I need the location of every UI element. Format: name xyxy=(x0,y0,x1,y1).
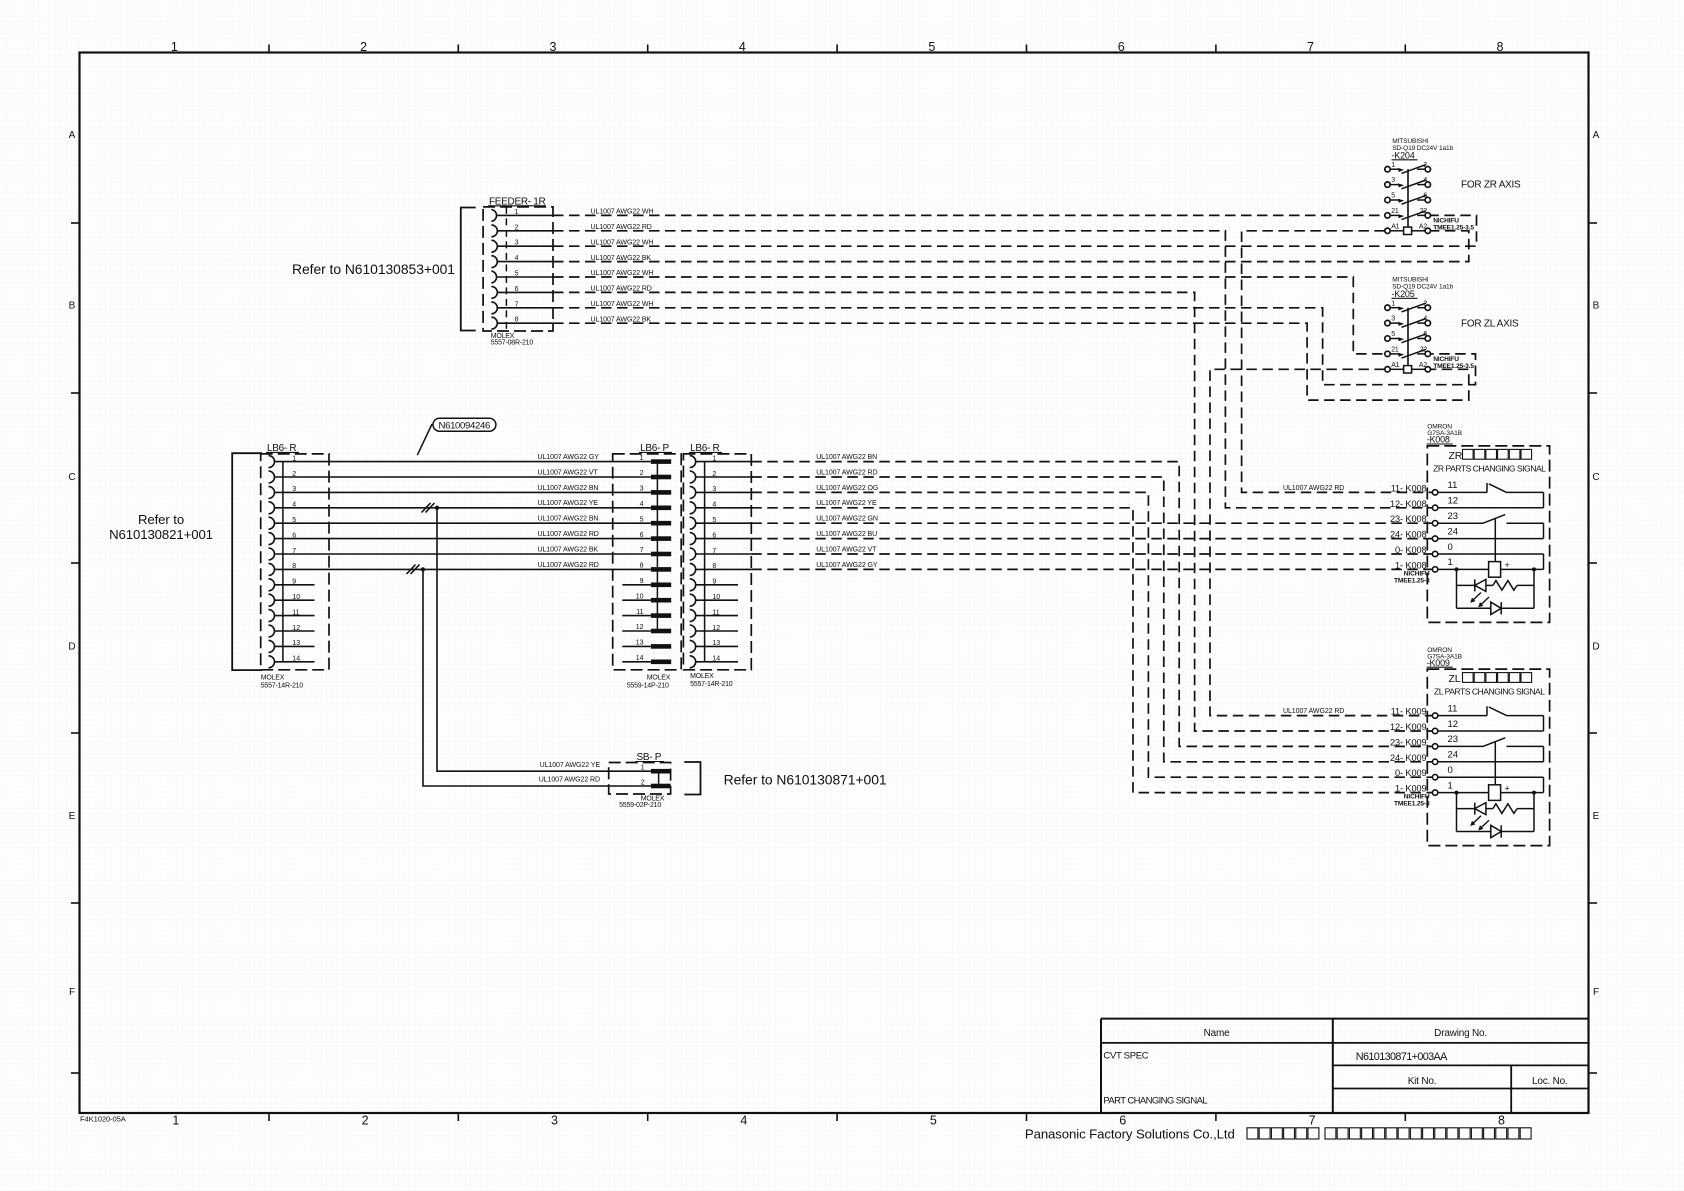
wire FEEDER.8 to K205.A2 (BK) xyxy=(553,323,1469,400)
relay K008 rows 0,1 xyxy=(1438,553,1544,555)
svg-text:UL1007 AWG22 RD: UL1007 AWG22 RD xyxy=(816,469,877,476)
svg-text:1: 1 xyxy=(640,455,644,462)
svg-text:N610130821+001: N610130821+001 xyxy=(109,527,213,542)
svg-text:4: 4 xyxy=(515,255,519,262)
svg-text:4: 4 xyxy=(1423,177,1427,184)
svg-text:Kit No.: Kit No. xyxy=(1408,1076,1437,1087)
svg-text:5: 5 xyxy=(930,1114,937,1128)
relay K205 contact row 5-6 xyxy=(1385,336,1390,341)
svg-text:14: 14 xyxy=(712,656,720,663)
svg-text:Refer to: Refer to xyxy=(138,512,184,527)
wire FEEDER.7 to K205.22 (WH) xyxy=(553,308,1476,385)
svg-text:3: 3 xyxy=(515,240,519,247)
border frame xyxy=(80,53,1589,1114)
svg-text:UL1007 AWG22 BK: UL1007 AWG22 BK xyxy=(538,546,599,553)
svg-text:13: 13 xyxy=(712,640,720,647)
relay K008 contact 11-12 xyxy=(1438,491,1487,493)
svg-text:5: 5 xyxy=(292,517,296,524)
svg-text:A1: A1 xyxy=(1391,362,1399,369)
svg-text:1: 1 xyxy=(1448,780,1453,791)
svg-text:D: D xyxy=(68,642,75,653)
svg-text:8: 8 xyxy=(515,317,519,324)
svg-text:6: 6 xyxy=(1119,1114,1126,1128)
svg-text:Name: Name xyxy=(1204,1028,1231,1039)
svg-text:ZR: ZR xyxy=(1449,450,1463,462)
svg-text:B: B xyxy=(1593,301,1600,312)
junction dot row4 xyxy=(435,506,439,510)
svg-text:5: 5 xyxy=(928,40,935,54)
svg-text:UL1007 AWG22 YE: UL1007 AWG22 YE xyxy=(540,762,601,769)
svg-text:8: 8 xyxy=(712,563,716,570)
svg-text:6: 6 xyxy=(640,532,644,539)
relay K009 pin 0 xyxy=(1432,775,1437,780)
relay K008 contact 23-24 xyxy=(1438,522,1483,524)
relay K205 contact row 21-22 xyxy=(1385,351,1390,356)
title block xyxy=(1101,1018,1589,1020)
svg-text:8: 8 xyxy=(292,563,296,570)
relay K009 pin 12 xyxy=(1432,728,1437,733)
svg-text:UL1007 AWG22 YE: UL1007 AWG22 YE xyxy=(816,500,877,507)
svg-text:A2: A2 xyxy=(1419,223,1427,230)
svg-text:F4K1020-05A: F4K1020-05A xyxy=(80,1115,127,1124)
svg-text:UL1007 AWG22 BN: UL1007 AWG22 BN xyxy=(816,454,877,461)
relay K204 actuator line xyxy=(1407,169,1409,227)
svg-text:4: 4 xyxy=(712,502,716,509)
svg-text:C: C xyxy=(1592,472,1599,483)
svg-text:ZL: ZL xyxy=(1449,673,1461,685)
svg-text:UL1007 AWG22 RD: UL1007 AWG22 RD xyxy=(538,531,599,538)
relay K009 coil link xyxy=(1494,741,1496,785)
svg-text:2: 2 xyxy=(292,471,296,478)
svg-text:UL1007 AWG22 BN: UL1007 AWG22 BN xyxy=(538,485,599,492)
svg-text:TMEE1.25-3.5: TMEE1.25-3.5 xyxy=(1433,363,1474,370)
svg-text:MOLEX: MOLEX xyxy=(261,674,285,681)
relay K008 pin 12 xyxy=(1432,505,1437,510)
svg-text:12: 12 xyxy=(712,625,720,632)
svg-text:21: 21 xyxy=(1391,347,1399,354)
svg-text:Refer to N610130871+001: Refer to N610130871+001 xyxy=(724,772,887,788)
relay K008 pin 24 xyxy=(1432,536,1437,541)
svg-text:-K008: -K008 xyxy=(1427,435,1450,445)
svg-text:24: 24 xyxy=(1448,526,1459,537)
relay K009 contact 23-24 xyxy=(1438,745,1483,747)
svg-text:-K009: -K009 xyxy=(1427,658,1450,668)
wire LB6R.6 to K008.24 (BU) xyxy=(751,538,1432,540)
svg-text:8: 8 xyxy=(1498,1114,1505,1128)
svg-text:1: 1 xyxy=(712,455,716,462)
svg-text:4: 4 xyxy=(740,1114,747,1128)
svg-text:14: 14 xyxy=(636,655,644,662)
relay K009 diode xyxy=(1457,831,1491,833)
svg-text:NICHIFU: NICHIFU xyxy=(1433,218,1459,225)
svg-text:1: 1 xyxy=(172,1114,179,1128)
svg-text:4: 4 xyxy=(739,40,746,54)
wire LB6R.4 to K009.1 (YE) xyxy=(751,508,1432,793)
relay K204 contact row 1-2 xyxy=(1385,167,1390,172)
wire FEEDER.2 to K008.12 (RD) xyxy=(553,231,1432,508)
svg-text:3: 3 xyxy=(551,1114,558,1128)
relay K009 coil xyxy=(1489,785,1501,801)
svg-text:7: 7 xyxy=(712,548,716,555)
svg-text:7: 7 xyxy=(515,301,519,308)
svg-text:UL1007 AWG22 RD: UL1007 AWG22 RD xyxy=(539,777,600,784)
relay K009 pin 1 xyxy=(1432,790,1437,795)
svg-text:1: 1 xyxy=(1391,300,1395,307)
svg-text:2: 2 xyxy=(1423,300,1427,307)
svg-text:UL1007 AWG22 GY: UL1007 AWG22 GY xyxy=(538,454,600,461)
svg-text:6: 6 xyxy=(1423,193,1427,200)
svg-text:C: C xyxy=(68,472,75,483)
svg-text:MOLEX: MOLEX xyxy=(690,673,714,680)
svg-text:Panasonic Factory Solutions Co: Panasonic Factory Solutions Co.,Ltd xyxy=(1025,1127,1235,1142)
svg-text:0- K008: 0- K008 xyxy=(1395,545,1426,555)
wire LB6R.3 to K009.0 (OG) xyxy=(751,492,1432,777)
svg-text:9: 9 xyxy=(292,579,296,586)
svg-text:23- K009: 23- K009 xyxy=(1390,737,1427,747)
relay K009 box xyxy=(1427,669,1549,846)
svg-text:11: 11 xyxy=(712,609,719,616)
svg-text:5: 5 xyxy=(640,516,644,523)
svg-text:7: 7 xyxy=(1309,1114,1316,1128)
relay K009 indicator branches xyxy=(1455,791,1459,795)
wire LB6R.5 to K008.23 (GN) xyxy=(751,522,1432,524)
svg-text:3: 3 xyxy=(550,40,557,54)
svg-text:7: 7 xyxy=(1307,40,1314,54)
svg-text:4: 4 xyxy=(292,502,296,509)
svg-text:11: 11 xyxy=(1448,480,1458,491)
relay K008 pin 11 xyxy=(1432,490,1437,495)
svg-text:10: 10 xyxy=(292,594,300,601)
svg-text:ZR PARTS CHANGING SIGNAL: ZR PARTS CHANGING SIGNAL xyxy=(1433,463,1546,473)
relay K009 pin 24 xyxy=(1432,759,1437,764)
svg-text:NICHIFU: NICHIFU xyxy=(1433,356,1459,363)
wire FEEDER.4 to K204.A2 (BK) xyxy=(553,231,1469,262)
connector LB6-P xyxy=(613,454,682,670)
svg-text:NICHIFU: NICHIFU xyxy=(1404,571,1430,578)
connector LB6-R left bracket xyxy=(232,453,262,670)
svg-text:1: 1 xyxy=(1391,162,1395,169)
relay K009 pin 23 xyxy=(1432,744,1437,749)
FEEDER-1R pins 1-8 xyxy=(491,210,496,222)
balloon leader xyxy=(417,424,432,455)
svg-text:N610130871+003AA: N610130871+003AA xyxy=(1356,1051,1448,1063)
svg-text:11: 11 xyxy=(292,609,299,616)
svg-text:13: 13 xyxy=(636,640,644,647)
svg-text:21: 21 xyxy=(1391,208,1399,215)
svg-text:-K204: -K204 xyxy=(1392,151,1415,161)
svg-text:11: 11 xyxy=(1448,703,1458,714)
svg-text:5557-14R-210: 5557-14R-210 xyxy=(261,682,304,689)
relay K008 pin 1 xyxy=(1432,567,1437,572)
svg-text:23- K008: 23- K008 xyxy=(1390,514,1427,524)
wire LB6 row8 to SB-P pin2 xyxy=(423,569,651,786)
svg-text:12: 12 xyxy=(1448,719,1459,730)
svg-text:2: 2 xyxy=(515,224,519,231)
relay K008 coil xyxy=(1489,562,1501,578)
svg-text:1: 1 xyxy=(292,455,296,462)
relay K009 LED arrows xyxy=(1472,816,1482,825)
svg-text:6: 6 xyxy=(1118,40,1125,54)
wire LB6R.1 to K009.23 (BN) xyxy=(751,462,1432,747)
svg-text:9: 9 xyxy=(640,578,644,585)
wire FEEDER.3 to K204.22 (WH) xyxy=(553,215,1477,246)
svg-text:0: 0 xyxy=(1448,542,1453,553)
svg-text:FOR ZR AXIS: FOR ZR AXIS xyxy=(1461,180,1521,191)
svg-text:FOR ZL AXIS: FOR ZL AXIS xyxy=(1461,319,1519,330)
svg-text:2: 2 xyxy=(1423,162,1427,169)
svg-text:2: 2 xyxy=(362,1114,369,1128)
relay K008 box xyxy=(1427,446,1549,623)
svg-text:6: 6 xyxy=(515,286,519,293)
svg-text:7: 7 xyxy=(292,548,296,555)
wire LB6R.2 to K009.24 (RD) xyxy=(751,477,1432,762)
svg-text:TMEE1.25-3.5: TMEE1.25-3.5 xyxy=(1433,225,1474,232)
connector SB-P xyxy=(609,763,671,795)
svg-text:4: 4 xyxy=(1423,316,1427,323)
svg-text:TMEE1.25-3: TMEE1.25-3 xyxy=(1394,801,1430,808)
LB6-R left pins 1-14 and wires xyxy=(269,456,275,468)
svg-text:12: 12 xyxy=(292,625,300,632)
relay K008 coil link xyxy=(1494,518,1496,562)
relay K204 contact row 21-22 xyxy=(1385,213,1390,218)
relay K008 indicator branches xyxy=(1455,567,1459,571)
svg-text:NICHIFU: NICHIFU xyxy=(1404,794,1430,801)
svg-text:2: 2 xyxy=(640,470,644,477)
svg-text:13: 13 xyxy=(292,640,300,647)
svg-text:5559-14P-210: 5559-14P-210 xyxy=(627,682,669,689)
svg-text:23: 23 xyxy=(1448,511,1459,522)
svg-text:A: A xyxy=(1593,130,1600,141)
svg-text:1- K008: 1- K008 xyxy=(1395,560,1426,570)
wire LB6R.7 to K008.0 (VT) xyxy=(751,553,1432,555)
frame ticks and zone labels xyxy=(268,45,270,53)
svg-text:23: 23 xyxy=(1448,734,1459,745)
relay K008 pin 23 xyxy=(1432,521,1437,526)
svg-text:ZL PARTS CHANGING SIGNAL: ZL PARTS CHANGING SIGNAL xyxy=(1434,687,1545,697)
svg-text:10: 10 xyxy=(636,593,644,600)
svg-text:+: + xyxy=(1505,560,1510,570)
relay K204 contact row 5-6 xyxy=(1385,197,1390,202)
svg-text:11- K009: 11- K009 xyxy=(1391,707,1427,717)
svg-text:A: A xyxy=(69,130,76,141)
svg-text:A1: A1 xyxy=(1391,223,1399,230)
svg-text:5557-14R-210: 5557-14R-210 xyxy=(690,681,733,688)
svg-text:TMEE1.25-3: TMEE1.25-3 xyxy=(1394,578,1430,585)
svg-text:0: 0 xyxy=(1448,765,1453,776)
svg-text:UL1007 AWG22 RD: UL1007 AWG22 RD xyxy=(1283,485,1344,492)
svg-text:UL1007 AWG22 OG: UL1007 AWG22 OG xyxy=(816,485,878,492)
relay K008 diode xyxy=(1457,607,1491,609)
svg-text:10: 10 xyxy=(712,594,720,601)
svg-text:6: 6 xyxy=(1423,331,1427,338)
connector LB6-R (right) xyxy=(683,454,751,670)
LB6-R right pins 1-14 xyxy=(690,456,696,468)
relay K204 contact row A1-A2 xyxy=(1385,228,1390,233)
svg-text:A2: A2 xyxy=(1419,362,1427,369)
svg-text:Loc. No.: Loc. No. xyxy=(1532,1076,1568,1087)
svg-text:3: 3 xyxy=(292,486,296,493)
svg-text:4: 4 xyxy=(640,501,644,508)
svg-text:UL1007 AWG22 VT: UL1007 AWG22 VT xyxy=(816,546,877,553)
svg-text:5: 5 xyxy=(515,271,519,278)
connector FEEDER-1R bracket xyxy=(461,208,476,331)
svg-text:11- K008: 11- K008 xyxy=(1391,483,1427,493)
wire FEEDER.1 to K204.21 (WH) xyxy=(553,214,1385,216)
svg-text:8: 8 xyxy=(1497,40,1504,54)
svg-text:-K205: -K205 xyxy=(1392,289,1415,299)
svg-text:1: 1 xyxy=(171,40,178,54)
svg-text:B: B xyxy=(69,301,76,312)
svg-text:1: 1 xyxy=(515,209,519,216)
connector LB6-R (left) xyxy=(261,454,329,670)
svg-text:24: 24 xyxy=(1448,750,1459,761)
svg-text:24- K009: 24- K009 xyxy=(1390,753,1427,763)
relay K205 contact row A1-A2 xyxy=(1385,367,1390,372)
wire K205.A1 to K009.11 (RD) xyxy=(1210,369,1432,715)
connector FEEDER-1R xyxy=(483,207,553,331)
relay K008 pin 0 xyxy=(1432,551,1437,556)
svg-text:5: 5 xyxy=(1391,331,1395,338)
svg-text:E: E xyxy=(69,811,76,822)
junction dot row8 xyxy=(421,567,425,571)
wire LB6R.8 to K008.1 (GY) xyxy=(751,568,1432,570)
svg-text:22: 22 xyxy=(1420,347,1428,354)
relay K205 contact row 1-2 xyxy=(1385,305,1390,310)
crossover slash row4 xyxy=(422,503,431,513)
svg-text:1- K009: 1- K009 xyxy=(1395,784,1426,794)
svg-text:6: 6 xyxy=(292,532,296,539)
relay K009 LED + resistor xyxy=(1457,808,1475,810)
svg-text:N610094246: N610094246 xyxy=(439,421,490,432)
svg-text:PART CHANGING SIGNAL: PART CHANGING SIGNAL xyxy=(1103,1095,1207,1106)
relay K009 contact 11-12 xyxy=(1438,715,1487,717)
relay K008 LED + resistor xyxy=(1457,584,1475,586)
svg-text:UL1007 AWG22 GY: UL1007 AWG22 GY xyxy=(816,562,878,569)
svg-text:+: + xyxy=(1505,783,1510,793)
SB-P bracket xyxy=(684,762,700,795)
svg-text:F: F xyxy=(69,987,75,998)
wire K204.A1 to K008.11 (RD) xyxy=(1242,231,1433,493)
svg-text:2: 2 xyxy=(641,780,645,787)
relay K009 pin 11 xyxy=(1432,713,1437,718)
svg-text:12- K008: 12- K008 xyxy=(1390,499,1427,509)
svg-text:CVT SPEC: CVT SPEC xyxy=(1103,1051,1148,1062)
svg-text:2: 2 xyxy=(712,471,716,478)
relay K205 actuator line xyxy=(1407,308,1409,366)
svg-text:8: 8 xyxy=(640,563,644,570)
svg-text:D: D xyxy=(1592,642,1599,653)
svg-text:5559-02P-210: 5559-02P-210 xyxy=(619,802,661,809)
relay K205 contact row 3-4 xyxy=(1385,320,1390,325)
svg-text:0- K009: 0- K009 xyxy=(1395,768,1426,778)
svg-text:14: 14 xyxy=(292,656,300,663)
svg-text:12: 12 xyxy=(636,624,644,631)
svg-text:UL1007 AWG22 YE: UL1007 AWG22 YE xyxy=(538,500,599,507)
wire FEEDER.6 to K009.12 (RD) xyxy=(553,292,1432,731)
svg-text:24- K008: 24- K008 xyxy=(1390,530,1427,540)
svg-text:UL1007 AWG22 GN: UL1007 AWG22 GN xyxy=(816,516,878,523)
svg-text:UL1007 AWG22 VT: UL1007 AWG22 VT xyxy=(538,469,599,476)
relay K009 rows 0,1 xyxy=(1438,776,1544,778)
wire FEEDER.5 to K205.21 (WH) xyxy=(553,277,1385,354)
svg-text:5557-08R-210: 5557-08R-210 xyxy=(491,340,534,347)
svg-text:22: 22 xyxy=(1420,208,1428,215)
svg-text:12- K009: 12- K009 xyxy=(1390,722,1427,732)
wire LB6 row4 to SB-P pin1 xyxy=(437,508,651,771)
svg-text:1: 1 xyxy=(641,765,645,772)
svg-text:UL1007 AWG22 RD: UL1007 AWG22 RD xyxy=(1283,708,1344,715)
svg-text:2: 2 xyxy=(360,40,367,54)
balloon N610094246 xyxy=(433,418,496,431)
svg-text:5: 5 xyxy=(712,517,716,524)
svg-text:3: 3 xyxy=(640,486,644,493)
svg-text:6: 6 xyxy=(712,532,716,539)
svg-text:1: 1 xyxy=(1448,557,1453,568)
svg-text:E: E xyxy=(1593,811,1600,822)
svg-text:UL1007 AWG22 BN: UL1007 AWG22 BN xyxy=(538,516,599,523)
svg-text:UL1007 AWG22 RD: UL1007 AWG22 RD xyxy=(538,562,599,569)
svg-text:5: 5 xyxy=(1391,193,1395,200)
svg-text:Refer to N610130853+001: Refer to N610130853+001 xyxy=(292,261,455,277)
svg-text:F: F xyxy=(1593,987,1599,998)
svg-text:UL1007 AWG22 BU: UL1007 AWG22 BU xyxy=(816,531,877,538)
svg-text:Drawing No.: Drawing No. xyxy=(1434,1028,1487,1039)
svg-text:3: 3 xyxy=(1391,177,1395,184)
relay K204 contact row 3-4 xyxy=(1385,182,1390,187)
LB6-P pins 1-14 xyxy=(651,459,671,464)
svg-text:3: 3 xyxy=(1391,316,1395,323)
svg-text:MOLEX: MOLEX xyxy=(647,674,671,681)
relay K008 LED arrows xyxy=(1472,593,1482,602)
svg-text:9: 9 xyxy=(712,579,716,586)
svg-text:7: 7 xyxy=(640,547,644,554)
svg-text:3: 3 xyxy=(712,486,716,493)
svg-text:12: 12 xyxy=(1448,496,1459,507)
svg-text:11: 11 xyxy=(636,609,643,616)
crossover slash row8 xyxy=(407,565,416,574)
